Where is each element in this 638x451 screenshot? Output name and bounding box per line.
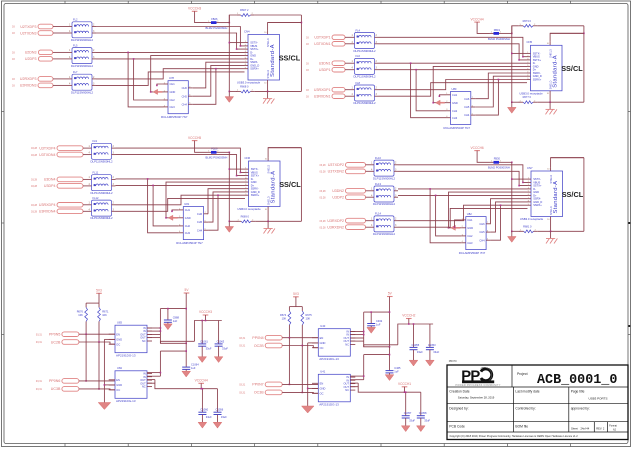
svg-text:03,28: 03,28 — [320, 164, 327, 167]
ground arrow GND — [98, 403, 111, 410]
svg-text:AP2191DG-13: AP2191DG-13 — [116, 399, 136, 403]
wire SSTX row1a — [379, 37, 528, 56]
svg-text:3: 3 — [376, 41, 378, 44]
svg-text:3: 3 — [113, 152, 115, 155]
svg-text:Format: Format — [609, 424, 617, 427]
wire SSTX row1a — [96, 27, 245, 46]
junction — [363, 375, 365, 377]
svg-text:ACB_0001_0: ACB_0001_0 — [537, 373, 617, 388]
wire label U2RXDN3 to choke — [53, 84, 68, 86]
svg-text:VCCCH4: VCCCH4 — [471, 17, 484, 21]
svg-text:RCLAMP2504P 7N7: RCLAMP2504P 7N7 — [176, 241, 203, 245]
wire label U2DN3 to choke — [53, 51, 68, 53]
wire SSRX row3b to pin10 — [398, 208, 528, 227]
svg-text:2: 2 — [376, 87, 378, 90]
junction — [85, 333, 87, 335]
svg-text:CH3: CH3 — [467, 241, 473, 245]
hierarchical label U3TXDP4 — [31, 146, 83, 151]
ferrite bead FB19 — [488, 28, 510, 41]
junction — [389, 346, 391, 348]
svg-text:U84: U84 — [117, 366, 122, 370]
hierarchical label PP0N5 — [36, 332, 79, 337]
svg-text:1: 1 — [89, 145, 91, 148]
svg-text:VCCCH3: VCCCH3 — [188, 7, 201, 11]
svg-text:CH2: CH2 — [467, 234, 473, 238]
svg-text:PR070: PR070 — [449, 359, 457, 363]
svg-text:03,28: 03,28 — [320, 190, 327, 193]
junction — [229, 22, 231, 24]
svg-text:FL12: FL12 — [93, 196, 99, 200]
svg-text:SHIELD: SHIELD — [267, 196, 270, 205]
right vertical wire — [583, 158, 585, 232]
junction — [127, 52, 129, 54]
svg-text:03: 03 — [306, 62, 309, 65]
svg-text:REV. 2: REV. 2 — [596, 426, 605, 430]
wire label U3RXDN2 to choke — [366, 226, 371, 228]
resistor R673 — [519, 19, 538, 27]
IN vertical — [363, 312, 365, 347]
junction — [370, 311, 372, 313]
svg-text:DLP11SN900HL2: DLP11SN900HL2 — [91, 191, 113, 195]
hierarchical label U3DN4 — [31, 177, 83, 182]
wire SSTX row1b — [379, 44, 528, 60]
svg-text:OUT: OUT — [344, 339, 350, 343]
cap stem — [420, 418, 422, 426]
junction — [160, 372, 162, 374]
svg-text:4: 4 — [352, 93, 354, 96]
svg-text:1: 1 — [352, 87, 354, 90]
svg-text:IN: IN — [346, 378, 349, 382]
svg-text:U3DP1: U3DP1 — [319, 68, 331, 72]
junction — [432, 102, 434, 104]
svg-text:NC: NC — [345, 388, 349, 392]
svg-text:03,28: 03,28 — [31, 204, 38, 207]
wire D+ tap to CH2 — [416, 70, 446, 111]
svg-text:33uF: 33uF — [221, 415, 227, 419]
junction — [98, 388, 100, 390]
svg-text:33uF: 33uF — [424, 418, 430, 422]
capacitor C1064 — [182, 363, 199, 370]
junction — [229, 168, 231, 170]
resistor R676 — [77, 307, 88, 321]
svg-text:5V3: 5V3 — [293, 292, 299, 296]
svg-text:03: 03 — [306, 69, 309, 72]
junction — [85, 380, 87, 382]
bottom wire right — [537, 101, 584, 103]
pull-up rail — [86, 302, 99, 304]
svg-text:U2DN3: U2DN3 — [25, 51, 37, 55]
wire GND pin to protection IC GND — [433, 66, 527, 102]
svg-text:IN: IN — [143, 375, 146, 379]
pull-up rail — [289, 306, 302, 308]
power symbol 5V3 — [96, 289, 102, 294]
svg-text:U3TXDP2: U3TXDP2 — [328, 163, 344, 167]
svg-text:PP0N5: PP0N5 — [49, 333, 60, 337]
VCC rail2 — [398, 324, 433, 345]
hierarchical label U2RXDN3 — [12, 83, 53, 88]
svg-text:SHIELD: SHIELD — [267, 70, 270, 79]
svg-text:FL10: FL10 — [375, 156, 381, 160]
svg-text:03,28: 03,28 — [31, 211, 38, 214]
wire up to series resistor — [512, 26, 519, 34]
connector top pin link wire — [551, 158, 584, 167]
IN vertical — [159, 309, 161, 344]
common-mode choke FL8 — [351, 81, 379, 105]
junction — [429, 188, 431, 190]
wire U2 GND pin — [308, 387, 319, 389]
USB3 connector CN5 — [527, 40, 563, 95]
svg-text:EN: EN — [116, 378, 120, 382]
VBUS/GND vertical wire — [511, 26, 513, 102]
svg-text:U3TXDN4: U3TXDN4 — [39, 153, 55, 157]
svg-text:SSRX+: SSRX+ — [251, 193, 260, 197]
ferrite bead FB26 — [206, 17, 228, 30]
svg-text:33uF: 33uF — [417, 350, 423, 354]
svg-text:GND: GND — [185, 216, 191, 220]
wire SSRX row3a to pin9 — [116, 195, 246, 205]
svg-text:03,31: 03,31 — [239, 337, 246, 340]
wire CH4 tap to pin9 row — [475, 80, 498, 116]
wire CH1 tap to row3b — [172, 210, 179, 211]
svg-text:C988: C988 — [173, 315, 180, 319]
svg-text:GND: GND — [320, 387, 326, 391]
hierarchical label U3RXDN2 — [320, 225, 366, 230]
wire CH6 to pin7 row — [475, 73, 527, 99]
ferrite bead FB29 — [206, 147, 228, 160]
svg-text:3: 3 — [376, 93, 378, 96]
svg-text:FL8: FL8 — [356, 81, 361, 85]
svg-text:CH4: CH4 — [464, 113, 470, 117]
svg-text:4: 4 — [69, 30, 71, 33]
junction — [185, 308, 187, 310]
svg-text:C1060: C1060 — [200, 408, 208, 412]
junction — [229, 42, 231, 44]
right vertical wire — [583, 26, 585, 102]
svg-text:CH6: CH6 — [197, 212, 203, 216]
svg-text:PCB Code: PCB Code — [449, 425, 465, 429]
svg-text:USB3.0 receptacle: USB3.0 receptacle — [237, 81, 261, 85]
bottom wire left — [229, 90, 237, 92]
VCC drop — [200, 383, 202, 388]
wire SSRX row3a to pin9 — [379, 80, 528, 90]
OC net vertical — [98, 342, 100, 389]
svg-text:R671: R671 — [102, 309, 109, 313]
wire label U3DN2 to choke — [366, 190, 371, 192]
hierarchical label U3RXDP2 — [320, 218, 366, 223]
svg-text:DLP11SN900HL2: DLP11SN900HL2 — [373, 176, 395, 180]
junction — [583, 33, 585, 35]
svg-text:OC3B: OC3B — [254, 391, 264, 395]
common-mode choke FL2 — [68, 18, 96, 42]
hierarchical label OC3B — [239, 390, 282, 395]
resistor stubs — [288, 307, 290, 311]
wire ferrite to VBUS vertical — [221, 151, 230, 153]
svg-text:U81: U81 — [184, 202, 189, 206]
svg-text:FL11: FL11 — [93, 171, 99, 175]
OUT rail — [364, 345, 390, 347]
junction — [498, 79, 500, 81]
svg-text:GND: GND — [467, 226, 473, 230]
svg-text:C1064: C1064 — [191, 363, 199, 367]
OUT to caps — [160, 343, 186, 351]
cap drop A — [413, 324, 415, 347]
ground arrow GND — [367, 327, 376, 333]
svg-text:10K: 10K — [102, 313, 107, 317]
wire U2 IN — [350, 375, 363, 377]
svg-text:AP2191DG-13: AP2191DG-13 — [319, 403, 339, 407]
wire CH4 tap to pin9 row — [193, 69, 216, 105]
wire D- row — [398, 188, 528, 190]
svg-text:03,28: 03,28 — [320, 226, 327, 229]
ground arrow GND — [164, 324, 173, 330]
svg-text:CH6: CH6 — [182, 86, 188, 90]
resistor R671 — [98, 307, 109, 321]
junction — [448, 227, 450, 229]
input cap stem — [370, 312, 372, 323]
cap drop A — [201, 389, 203, 413]
svg-text:SHIELD: SHIELD — [550, 206, 553, 215]
cap drop A — [201, 321, 203, 344]
svg-text:C1063: C1063 — [217, 339, 225, 343]
R bottom stubs — [288, 325, 290, 338]
svg-text:CH6: CH6 — [464, 97, 470, 101]
power symbol 5V — [184, 288, 190, 293]
wire D- tap to CH3 — [430, 189, 461, 243]
svg-text:U82: U82 — [467, 212, 472, 216]
svg-text:SSRX+: SSRX+ — [250, 67, 259, 71]
cap to gnd — [167, 322, 169, 324]
svg-text:U2TXDP3: U2TXDP3 — [20, 25, 36, 29]
svg-text:10K: 10K — [78, 313, 83, 317]
connector shield pin stub — [550, 217, 552, 232]
svg-text:U3TXDN1: U3TXDN1 — [314, 42, 330, 46]
cap drop B — [420, 392, 422, 416]
svg-text:R681 0: R681 0 — [523, 224, 532, 228]
U2 out cap stem — [185, 351, 187, 367]
svg-text:Standard-A: Standard-A — [270, 171, 276, 204]
svg-text:AP2191DG-13: AP2191DG-13 — [116, 354, 136, 358]
junction — [550, 231, 552, 233]
svg-text:03: 03 — [306, 37, 309, 40]
wire D- row — [116, 178, 246, 180]
hierarchical label U3TXDP2 — [320, 163, 366, 168]
svg-text:03,31: 03,31 — [239, 392, 246, 395]
wire OC — [79, 342, 115, 344]
wire CH5 to pin8 row — [475, 76, 527, 107]
5V rail — [160, 308, 186, 310]
wire EN2 — [79, 380, 115, 382]
svg-text:03: 03 — [12, 58, 15, 61]
power symbol VCCCH1 — [398, 382, 411, 387]
svg-text:RCLAMP2504P 7N7: RCLAMP2504P 7N7 — [459, 251, 486, 255]
wire D- tap to CH3 — [128, 52, 163, 107]
ESD protection IC U80 — [444, 87, 476, 130]
svg-text:R673 0: R673 0 — [523, 19, 532, 23]
capacitor C1056 — [214, 408, 224, 415]
wire label U3TXDP2 to choke — [366, 164, 371, 166]
connector shield pin stub — [267, 207, 269, 222]
wire label U3RXDN4 to choke — [83, 210, 88, 212]
VBUS/GND vertical wire — [511, 162, 513, 231]
wire U2 OUT2 — [350, 382, 358, 384]
chassis ground — [546, 239, 557, 244]
stub — [154, 380, 156, 384]
svg-text:CH4: CH4 — [197, 228, 203, 232]
svg-text:U3DN1: U3DN1 — [319, 62, 331, 66]
hierarchical label U3TXDN1 — [306, 42, 345, 47]
wire CH5 to pin8 row — [208, 192, 245, 222]
power symbol VCCCH2 — [402, 314, 415, 319]
svg-text:33uF: 33uF — [222, 347, 228, 351]
svg-text:CH5: CH5 — [464, 105, 470, 109]
cap drop B — [217, 389, 219, 413]
svg-text:4: 4 — [69, 56, 71, 59]
junction — [133, 58, 135, 60]
wire label U3TXDN1 to choke — [345, 43, 351, 45]
wire VBUS pin — [512, 178, 528, 180]
svg-text:CH2: CH2 — [170, 98, 176, 102]
svg-text:03,28: 03,28 — [31, 154, 38, 157]
capacitor C988 — [164, 315, 180, 322]
svg-text:OC: OC — [116, 388, 120, 392]
power switch IC U84 — [109, 366, 152, 403]
zone tick mark right — [628, 222, 630, 224]
junction — [185, 343, 187, 345]
svg-text:03: 03 — [12, 78, 15, 81]
capacitor C465 — [386, 366, 402, 373]
wire resistor to right vertical — [537, 25, 584, 27]
svg-text:DLP11SN900HL2: DLP11SN900HL2 — [71, 64, 93, 68]
svg-text:VCCCH4: VCCCH4 — [195, 379, 208, 383]
svg-text:03: 03 — [306, 95, 309, 98]
svg-text:U3DP4: U3DP4 — [44, 184, 56, 188]
wire CH5 to pin8 row — [491, 202, 528, 232]
title block outer frame — [447, 365, 628, 440]
svg-text:2: 2 — [376, 34, 378, 37]
svg-text:03,31: 03,31 — [239, 345, 246, 348]
svg-text:CH6: CH6 — [479, 222, 485, 226]
wire D+ row — [379, 69, 528, 71]
resistor R675 — [301, 311, 312, 325]
power symbol VCCCH5 — [188, 136, 201, 141]
bottom wire right — [538, 230, 584, 232]
wire label U3RXDN1 to choke — [345, 95, 351, 97]
cap drop A — [405, 392, 407, 416]
common-mode choke FL9 — [88, 139, 116, 163]
svg-text:BLM2 PG600SNH: BLM2 PG600SNH — [206, 156, 228, 160]
common-mode choke FL4 — [351, 28, 379, 53]
hierarchical label OC2B — [239, 343, 282, 348]
svg-text:OC: OC — [320, 346, 324, 350]
svg-text:03,31: 03,31 — [36, 388, 43, 391]
svg-text:2: 2 — [376, 60, 378, 63]
svg-text:4: 4 — [352, 67, 354, 70]
svg-text:DLP11SN900HL2: DLP11SN900HL2 — [373, 232, 395, 236]
svg-text:R668 0: R668 0 — [240, 84, 249, 88]
wire 5V3 down — [98, 293, 100, 303]
svg-text:10: 10 — [264, 32, 267, 34]
wire label U3DN1 to choke — [345, 62, 351, 64]
svg-text:IN: IN — [346, 333, 349, 337]
svg-text:DLP11SN900HL2: DLP11SN900HL2 — [91, 160, 113, 164]
svg-text:PP0N7: PP0N7 — [252, 383, 263, 387]
svg-text:5V3: 5V3 — [96, 289, 102, 293]
ground arrow GND — [225, 227, 234, 233]
svg-text:BLM2 PG600SNH: BLM2 PG600SNH — [488, 166, 510, 170]
wire CH5 to pin8 row — [193, 65, 245, 96]
cap stem — [218, 346, 220, 357]
bottom wire left — [229, 220, 237, 222]
svg-text:NC: NC — [142, 339, 146, 343]
hierarchical label PP0N4 — [239, 335, 282, 340]
junction — [302, 345, 304, 347]
svg-text:2: 2 — [93, 76, 95, 79]
right vertical wire — [300, 15, 302, 91]
svg-text:10: 10 — [547, 219, 550, 221]
wire label U2TXDN3 to choke — [53, 32, 68, 34]
svg-text:DLP11SN900HL2: DLP11SN900HL2 — [354, 75, 376, 79]
svg-text:C1056: C1056 — [216, 408, 224, 412]
hierarchical label U2TXDN3 — [12, 31, 53, 36]
power symbol VCCCH6 — [471, 146, 484, 151]
wire IN pins — [350, 331, 363, 333]
cap drop B — [218, 321, 220, 344]
svg-text:OC: OC — [116, 342, 120, 346]
svg-text:1: 1 — [69, 49, 71, 52]
svg-text:CH4: CH4 — [479, 238, 485, 242]
svg-text:R674: R674 — [280, 313, 287, 317]
cap stem — [405, 418, 407, 426]
hierarchical label PP0N7 — [239, 382, 282, 387]
hierarchical label U3DP2 — [320, 195, 366, 200]
wire SSTX row1b — [398, 171, 528, 185]
connector shield pin stub — [549, 91, 551, 102]
ground arrow (left) — [168, 215, 177, 220]
wire SSRX row3b to pin10 — [116, 198, 246, 211]
svg-text:CH4: CH4 — [182, 102, 188, 106]
junction — [205, 320, 207, 322]
svg-text:BOM file: BOM file — [515, 425, 528, 429]
svg-text:U3RXDN2: U3RXDN2 — [327, 226, 344, 230]
junction — [363, 331, 365, 333]
capacitor C1063 — [215, 339, 225, 346]
svg-text:DLP11SN900HL2: DLP11SN900HL2 — [354, 101, 376, 105]
svg-text:2: 2 — [93, 23, 95, 26]
svg-text:SS/CL: SS/CL — [279, 53, 301, 62]
svg-text:FL9: FL9 — [93, 139, 98, 143]
svg-text:03,31: 03,31 — [36, 380, 43, 383]
svg-text:GND: GND — [452, 101, 458, 105]
power symbol 5V3 — [293, 292, 299, 297]
junction — [240, 172, 242, 174]
bottom wire left — [512, 101, 520, 103]
svg-text:DLP11SN900HL2: DLP11SN900HL2 — [354, 49, 376, 53]
ESD protection IC U82 — [459, 212, 491, 255]
wire label U2TXDP3 to choke — [53, 26, 68, 28]
svg-text:1: 1 — [69, 76, 71, 79]
wire SSTX row1a — [398, 165, 528, 183]
capacitor C1057 — [402, 411, 412, 418]
wire GND pin — [308, 342, 319, 344]
junction — [215, 68, 217, 70]
junction — [363, 334, 365, 336]
power switch IC U83 — [109, 321, 152, 358]
svg-text:CH5: CH5 — [197, 220, 203, 224]
cap to gnd — [185, 369, 187, 371]
hierarchical label PP0N6 — [36, 379, 79, 384]
svg-text:DLP11SN900HL2: DLP11SN900HL2 — [71, 90, 93, 94]
junction — [236, 48, 238, 50]
